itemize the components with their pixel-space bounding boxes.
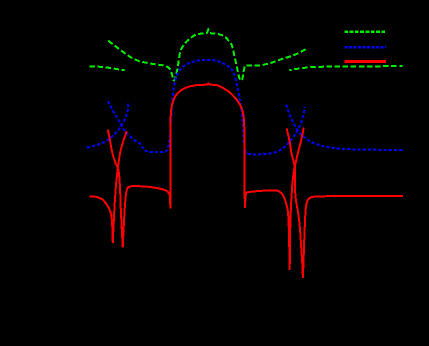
green curve: left flat branch [90, 66, 125, 70]
blue curve: left rising branch [87, 104, 128, 148]
red curve: left baseline diving into spike A, then rising arm [90, 131, 127, 243]
blue curve: main branch (left descending arm, left well, central dome, right well, rising arm) [108, 60, 305, 155]
green curve: right flat branch [289, 66, 402, 70]
blue curve: right descending branch [286, 105, 402, 150]
green curve: main branch (descending arm, left notch, central dome, right notch, rising arm) [108, 30, 306, 81]
legend green dashed sample [344, 31, 386, 34]
red curve: right descending arm into spike A', then baseline [287, 128, 403, 278]
red curve: descending arm into spike B, mid flat, dome (left wall, flat top, right wall), right flat, spike B', rising arm [108, 83, 304, 270]
legend red solid sample [345, 60, 386, 63]
legend blue dashed sample [344, 46, 386, 49]
